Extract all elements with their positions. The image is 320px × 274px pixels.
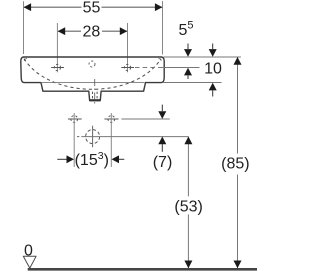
svg-text:55: 55: [83, 0, 101, 17]
svg-text:(53): (53): [174, 199, 202, 216]
svg-text:10: 10: [204, 61, 222, 78]
svg-text:(153): (153): [75, 150, 109, 169]
svg-text:28: 28: [83, 24, 101, 41]
svg-text:(7): (7): [153, 154, 173, 171]
svg-text:(85): (85): [221, 155, 249, 172]
